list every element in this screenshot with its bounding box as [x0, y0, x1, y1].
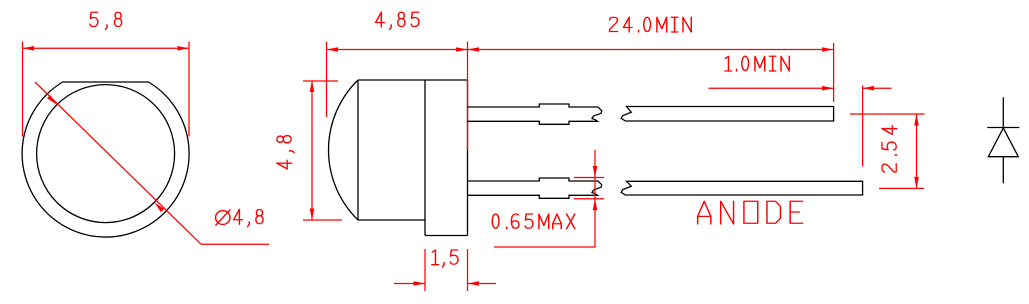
dimension 5,8: [23, 12, 190, 136]
diameter leader Ø4,8: [35, 82, 269, 244]
LED side view: dome and body outline: [328, 80, 467, 220]
LED side view: flange: [425, 80, 468, 236]
diode symbol (polarity): [987, 97, 1019, 183]
cathode lead (top), outer segment: [621, 107, 833, 122]
dimension 4,8 (vertical): [277, 81, 342, 221]
label ANODE: [698, 201, 803, 224]
cathode lead (top), inner segment with break: [468, 104, 602, 124]
dimension 4,85: [327, 12, 468, 150]
dimension 1,5: [394, 249, 496, 291]
LED top view: inner epoxy circle Ø4,8: [37, 85, 175, 223]
dimension 1.0MIN: [709, 56, 892, 166]
anode lead (bottom), outer segment: [621, 181, 862, 195]
LED top view: outer flange circle with flat: [22, 82, 189, 237]
dimension 0.65MAX with leader: [492, 150, 604, 247]
dimension 24.0MIN: [468, 17, 834, 102]
dimension 2.54 (vertical): [850, 114, 925, 188]
anode lead (bottom), inner segment with break: [468, 178, 602, 198]
